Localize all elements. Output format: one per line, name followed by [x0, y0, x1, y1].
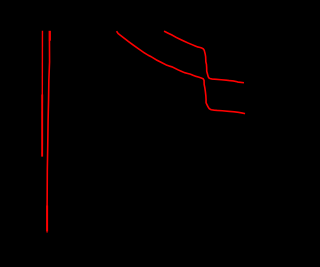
left vertical curve 2 fading tip: [46, 232, 48, 234]
left vertical curve 2 bottom: [46, 206, 48, 232]
right curve A (upper trace): [164, 31, 244, 83]
left vertical curve 2 main: [47, 41, 49, 206]
right curve B (lower trace): [117, 31, 246, 114]
left vertical curve 2 wide top: [49, 31, 51, 41]
left vertical curve 1 top: [41, 31, 43, 95]
left vertical curve 1 bottom: [41, 95, 43, 157]
